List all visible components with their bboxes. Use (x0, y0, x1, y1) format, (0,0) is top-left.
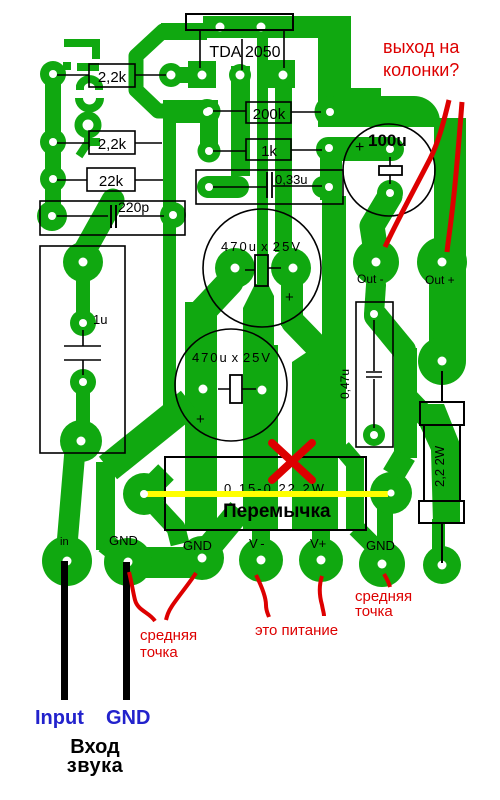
svg-text:100u: 100u (368, 131, 407, 150)
wire link 0,33u right up (320, 158, 342, 200)
resistor R1 2,2k outline (89, 64, 135, 87)
capacitor C4 0,33u outline (196, 170, 343, 204)
svg-text:колонки?: колонки? (383, 60, 459, 80)
wire thick output trace descent (318, 30, 351, 98)
pad IC pin left (159, 63, 183, 87)
wire diag B to GND1 vertical (108, 402, 190, 468)
wire 1u pad to in pad (67, 450, 75, 545)
svg-text:Input: Input (35, 707, 84, 729)
svg-text:+: + (285, 289, 294, 306)
svg-text:0,47u: 0,47u (338, 369, 352, 399)
wire joint to GND1 (105, 543, 123, 557)
svg-text:Перемычка: Перемычка (223, 501, 331, 522)
svg-text:0,33u: 0,33u (275, 172, 308, 187)
resistor R2 2,2k outline (89, 131, 135, 154)
pad 0,33u left (197, 176, 249, 198)
wire GND3 stem to jumper right pad (377, 505, 393, 550)
wire diag C1 right to strip E (293, 322, 324, 354)
capacitor C6 470u top circle (203, 209, 321, 327)
svg-text:+: + (355, 139, 364, 156)
svg-text:TDA 2050: TDA 2050 (209, 44, 280, 61)
IC pin5 block (268, 60, 295, 88)
wire strip F (GND3) in jumper box (346, 457, 364, 529)
IC pin1 block (188, 61, 216, 88)
svg-text:средняя: средняя (140, 627, 197, 644)
wire rail A vertical (163, 100, 176, 412)
svg-text:это питание: это питание (255, 622, 338, 639)
resistor R6 2,2W outline (420, 402, 464, 425)
pad jumper right (370, 472, 412, 514)
pad in (42, 536, 92, 586)
svg-text:GND: GND (183, 538, 212, 553)
wire diag GND3 from F strip (356, 528, 376, 548)
svg-text:2,2 2W: 2,2 2W (432, 445, 447, 487)
wire strip Ep (V+) in jumper box (293, 457, 338, 529)
svg-text:470u x 25V: 470u x 25V (221, 239, 300, 254)
wire bottle below C1 (243, 284, 274, 345)
wire strip E right (292, 196, 346, 529)
red line from V- (256, 575, 269, 617)
pad jumper left (123, 473, 165, 515)
pad 1u bottom big (60, 420, 102, 462)
red line from GND1 (129, 572, 155, 621)
svg-text:1u: 1u (93, 312, 107, 327)
svg-text:2,2k: 2,2k (98, 136, 127, 153)
wire tab bar (203, 16, 351, 38)
pad P2 (40, 129, 66, 155)
svg-text:200k: 200k (253, 106, 286, 123)
wire C1 right pad stem down (281, 278, 303, 326)
jumper yellow wire (147, 491, 388, 497)
pad C1 470u left (215, 248, 255, 288)
wire top loop from tab to pad (136, 31, 207, 111)
red line from V+ (320, 576, 324, 616)
IC U1 leads (200, 31, 284, 70)
pad output end (418, 337, 466, 385)
svg-text:1k: 1k (261, 143, 277, 160)
wire jumper pad arms (150, 472, 166, 488)
wire strip M center (257, 38, 268, 290)
svg-text:V -: V - (249, 536, 265, 551)
pad P3 (40, 166, 66, 192)
pad P1 (40, 61, 66, 87)
jumper box outline (165, 457, 366, 530)
pad V- (239, 538, 283, 582)
svg-text:Out +: Out + (425, 273, 455, 287)
svg-text:+: + (196, 411, 205, 428)
capacitor C2 220p outline (40, 201, 185, 235)
svg-text:точка: точка (140, 644, 178, 661)
capacitor C8 0,47u outline (356, 302, 393, 447)
pad GND3 (359, 541, 405, 587)
pad 0,33u right (312, 176, 342, 198)
pad GND1 (104, 538, 152, 586)
pad GND2 (180, 536, 224, 580)
wire diag strip into 2,2W body (408, 398, 430, 421)
pad loop end (194, 99, 220, 125)
svg-text:220p: 220p (118, 199, 149, 215)
svg-text:22k: 22k (99, 173, 124, 190)
wire diag D to GND2 (205, 510, 240, 552)
wire strip R under pin5 (275, 88, 292, 252)
pad Out+ (417, 237, 467, 287)
svg-text:GND: GND (109, 533, 138, 548)
red wire to Out- (385, 100, 449, 247)
pad 100u top + bottom chain to Out- (377, 180, 403, 206)
wire diag 220p to 1u pad (84, 200, 113, 252)
pad V+ (299, 538, 343, 582)
pad 220p right (160, 202, 186, 228)
pad 1u lower (70, 369, 96, 395)
wire arm to 100u top (316, 137, 404, 161)
wire diag C1 left to strip B (200, 282, 230, 314)
wire bridge GND1-GND2 (120, 547, 205, 578)
svg-text:GND: GND (106, 707, 150, 729)
wire left rail (45, 70, 61, 220)
pad 1u top big (63, 242, 103, 282)
silkscreen text Lincor (green, rotated) (63, 43, 100, 156)
red X mark (272, 443, 312, 480)
capacitor C3 1u outline (40, 246, 125, 453)
pad 0,47u bottom (363, 424, 385, 446)
svg-text:2,2k: 2,2k (98, 69, 127, 86)
resistor R3 22k outline (87, 168, 135, 191)
wire 0,47u chain from Out- (374, 285, 376, 314)
svg-text:выход на: выход на (383, 37, 460, 57)
svg-text:Out -: Out - (357, 272, 384, 286)
pad Out- (353, 239, 399, 285)
svg-text:470u x 25V: 470u x 25V (192, 350, 270, 365)
svg-text:GND: GND (366, 538, 395, 553)
pad P4 (37, 201, 67, 231)
red line from GND2 (166, 573, 196, 620)
wire arm to feedback pads (163, 100, 218, 123)
wire strip B (185, 302, 217, 529)
IC pin3 strip (231, 66, 250, 176)
wire link feedback pads (200, 111, 218, 151)
IC U1 TDA2050 tab outline (186, 14, 293, 30)
svg-text:V+: V+ (310, 536, 326, 551)
wire black gnd (123, 562, 130, 700)
resistor R4 200k outline (246, 102, 291, 123)
wire trace under 2,2W body (419, 404, 460, 523)
red tick from GND3 (384, 574, 390, 587)
wire 1u link (76, 262, 90, 324)
svg-text:звука: звука (67, 755, 124, 777)
svg-text:in: in (60, 536, 69, 548)
capacitor C5 100u circle (343, 124, 435, 216)
pad 2,2W bottom (423, 546, 461, 584)
wire black input (61, 561, 68, 700)
pad C1 470u right (271, 248, 311, 288)
wire thick output vertical to Out+ (434, 118, 466, 262)
wire thick output horizontal (318, 96, 440, 127)
resistor R5 1k outline (246, 139, 291, 160)
svg-text:точка: точка (355, 603, 393, 620)
capacitor C7 470u bottom circle (175, 329, 287, 441)
wire strip D (243, 345, 278, 529)
red wire to Out+ (447, 102, 462, 252)
